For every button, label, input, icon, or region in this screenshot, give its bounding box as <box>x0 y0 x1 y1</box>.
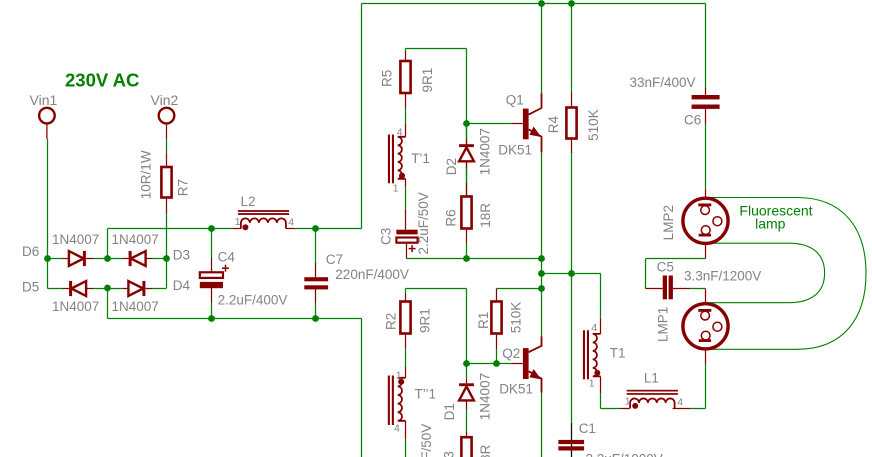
wire y273 cross wire <box>542 274 601 319</box>
capacitor C6 <box>692 88 720 124</box>
value 1N4007 of D2 <box>477 128 492 175</box>
value 220nF/400V <box>335 267 409 282</box>
label L2 <box>241 194 256 209</box>
svg-text:1: 1 <box>393 182 399 194</box>
wire Q2 emitter down <box>541 393 543 457</box>
pin 1 of T''1 <box>396 369 402 381</box>
svg-text:2.2uF/50V: 2.2uF/50V <box>416 192 431 254</box>
svg-text:T1: T1 <box>610 346 626 361</box>
label Q2 <box>502 346 520 361</box>
pin 1 of T1 <box>589 377 595 389</box>
svg-text:Q1: Q1 <box>506 92 524 107</box>
junction top rail at Q1 collector <box>538 0 545 7</box>
label C6 <box>684 113 701 128</box>
svg-text:C7: C7 <box>326 252 343 267</box>
value 1N4007 of D4 <box>112 299 159 314</box>
svg-text:2.2uF/50V: 2.2uF/50V <box>419 424 434 457</box>
svg-text:1: 1 <box>235 216 241 228</box>
svg-text:D1: D1 <box>442 403 457 420</box>
svg-text:D6: D6 <box>22 244 39 259</box>
junction Q1 emitter node <box>538 255 545 262</box>
svg-text:1: 1 <box>625 396 631 408</box>
value 33nF/400V <box>630 75 696 90</box>
svg-text:lamp: lamp <box>755 216 786 232</box>
wire C6 net upper <box>705 4 707 89</box>
value 18R of R6 <box>478 203 493 228</box>
wire bottom rail y318 <box>108 289 362 457</box>
label Vin1 <box>30 92 58 108</box>
label 230V AC <box>65 69 139 90</box>
svg-text:R3: R3 <box>442 451 457 457</box>
svg-text:4: 4 <box>288 216 294 228</box>
label D6 <box>22 244 39 259</box>
svg-text:T’1: T’1 <box>411 151 430 166</box>
value of C1 (cut) <box>586 452 663 457</box>
label L1 <box>644 371 659 386</box>
svg-text:R7: R7 <box>176 179 191 196</box>
lamp LMP2 <box>683 189 728 259</box>
label Fluorescent lamp <box>739 203 812 232</box>
terminal Vin2 <box>159 108 175 139</box>
junction x541 y273 <box>538 270 545 277</box>
svg-text:1N4007: 1N4007 <box>477 373 492 420</box>
value 1N4007 of D5 <box>52 299 99 314</box>
wire R2 cell top <box>406 289 467 364</box>
svg-text:1N4007: 1N4007 <box>112 232 159 247</box>
resistor R1 <box>491 289 501 364</box>
label R5 <box>379 70 394 87</box>
label D1 <box>442 403 457 420</box>
inductor L1 <box>620 390 690 409</box>
svg-text:C4: C4 <box>218 250 236 265</box>
pin 4 of L1 <box>677 397 683 409</box>
svg-text:1N4007: 1N4007 <box>112 299 159 314</box>
wire LMP2 bottom to C5 <box>646 259 706 289</box>
wire C5 to LMP1 top <box>690 288 706 290</box>
pin 4 of T''1 <box>394 423 400 435</box>
wire Q2 base <box>467 363 512 365</box>
label R3 <box>442 451 457 457</box>
svg-text:DK51: DK51 <box>498 142 532 157</box>
pin 1 of L1 <box>625 396 631 408</box>
svg-text:4: 4 <box>677 397 683 409</box>
svg-text:R2: R2 <box>384 313 399 330</box>
diode D4 <box>108 281 167 296</box>
svg-text:4: 4 <box>591 322 597 334</box>
label C7 <box>326 252 343 267</box>
svg-text:3.3nF/1200V: 3.3nF/1200V <box>684 269 761 284</box>
label R7 <box>176 179 191 196</box>
label R1 <box>476 312 491 329</box>
wire bridge plus riser <box>107 229 109 259</box>
label R4 <box>546 115 561 133</box>
transformer T''1 <box>388 367 406 457</box>
resistor R5 <box>400 49 410 125</box>
value 9R1 of R2 <box>418 308 433 333</box>
value 1N4007 of D1 <box>477 373 492 420</box>
svg-text:LMP1: LMP1 <box>655 307 670 342</box>
svg-text:510K: 510K <box>508 302 523 334</box>
value 9R1 of R5 <box>420 68 435 93</box>
resistor R4 <box>566 4 576 154</box>
value 2.2uF/400V <box>218 292 288 307</box>
svg-text:9R1: 9R1 <box>420 68 435 93</box>
inductor L2 <box>233 210 295 230</box>
wire Vin1 net vertical <box>47 139 49 289</box>
wire C1 black segment <box>571 423 573 457</box>
resistor R3 <box>461 437 471 457</box>
value 2.2uF/50V of C2 <box>419 424 434 457</box>
svg-text:Vin1: Vin1 <box>30 92 58 108</box>
label Vin2 <box>151 92 179 108</box>
junction Q2 base node <box>463 360 470 367</box>
pin 1 of T'1 <box>393 182 399 194</box>
wire R5 cell top <box>406 49 467 124</box>
label T''1 <box>415 387 437 402</box>
svg-text:C6: C6 <box>684 113 701 128</box>
capacitor C3 <box>396 230 417 259</box>
wire Q1 base <box>467 123 512 125</box>
junction C7 bottom <box>312 315 319 322</box>
svg-text:R5: R5 <box>379 70 394 87</box>
value 10R/1W <box>138 150 153 199</box>
junction top rail at R4 <box>568 0 575 7</box>
value DK51 of Q2 <box>499 382 533 397</box>
svg-text:L1: L1 <box>644 371 659 386</box>
resistor R6 <box>461 197 471 259</box>
transistor Q1 <box>511 4 541 153</box>
transformer T1 <box>583 318 601 393</box>
label D4 <box>173 278 191 293</box>
svg-text:R6: R6 <box>444 209 459 226</box>
transistor Q2 <box>511 336 541 392</box>
value 1N4007 of D6 <box>52 232 99 247</box>
wire T1 bottom to L1 <box>601 393 621 408</box>
label C4 <box>218 250 236 265</box>
label C5 <box>657 259 674 274</box>
label T'1 <box>411 151 430 166</box>
diode D2 <box>459 124 474 197</box>
svg-text:18R: 18R <box>478 203 493 228</box>
svg-text:220nF/400V: 220nF/400V <box>335 267 409 282</box>
wire L1 to LMP1 <box>690 364 706 409</box>
svg-text:1: 1 <box>589 377 595 389</box>
wire L2 output node y228 <box>108 228 362 230</box>
svg-text:D3: D3 <box>173 248 190 263</box>
svg-text:T’’1: T’’1 <box>415 387 437 402</box>
label D3 <box>173 248 190 263</box>
label C3 <box>379 228 394 245</box>
svg-text:510K: 510K <box>586 109 601 141</box>
wire R1 top <box>497 288 542 290</box>
junction bridge row1 right <box>163 255 170 262</box>
value 18R of R3 <box>478 444 493 457</box>
pin 4 of T1 <box>591 322 597 334</box>
junction R1 bottom <box>493 360 500 367</box>
svg-text:4: 4 <box>394 423 400 435</box>
lamp LMP1 <box>683 289 728 364</box>
junction x541 y288 <box>538 285 545 292</box>
svg-text:C1: C1 <box>579 421 596 436</box>
junction R6 bottom <box>463 255 470 262</box>
diode D5 <box>48 281 108 296</box>
capacitor C5 <box>646 276 690 300</box>
resistor R2 <box>400 289 410 368</box>
junction bridge row2 centre <box>104 285 111 292</box>
diode D1 <box>459 364 474 438</box>
transformer T'1 <box>388 124 406 230</box>
svg-text:Vin2: Vin2 <box>151 92 179 108</box>
svg-text:1: 1 <box>396 369 402 381</box>
label Q1 <box>506 92 524 107</box>
svg-text:1N4007: 1N4007 <box>52 232 99 247</box>
wire emitter bottom y258 <box>407 258 542 260</box>
pin 4 of L2 <box>288 216 294 228</box>
svg-text:4: 4 <box>397 126 403 138</box>
label T1 <box>610 346 626 361</box>
label R6 <box>444 209 459 226</box>
svg-text:D5: D5 <box>22 279 39 294</box>
junction Q1 base node <box>463 120 470 127</box>
label D5 <box>22 279 39 294</box>
wire Vin2/R7 net vertical <box>166 213 168 288</box>
pin 4 of T'1 <box>397 126 403 138</box>
diode D6 <box>48 251 108 266</box>
label LMP1 <box>655 307 670 342</box>
diode D3 <box>108 251 167 266</box>
value 2.2uF/50V of C3 <box>416 192 431 254</box>
svg-text:2.2uF/400V: 2.2uF/400V <box>218 292 288 307</box>
pin 1 of L2 <box>235 216 241 228</box>
fluorescent tube inner outline <box>706 243 825 303</box>
label D2 <box>444 158 459 175</box>
svg-text:DK51: DK51 <box>499 382 533 397</box>
svg-text:C3: C3 <box>379 228 394 245</box>
svg-text:R4: R4 <box>546 115 561 133</box>
svg-text:D4: D4 <box>173 278 191 293</box>
label C1 <box>579 421 596 436</box>
svg-text:10R/1W: 10R/1W <box>138 150 153 199</box>
svg-text:230V AC: 230V AC <box>65 69 139 90</box>
label R2 <box>384 313 399 330</box>
value 510K of R1 <box>508 302 523 334</box>
junction C7 top <box>312 225 319 232</box>
junction R4 bottom <box>568 270 575 277</box>
capacitor C4 <box>200 229 229 319</box>
svg-text:33nF/400V: 33nF/400V <box>630 75 696 90</box>
svg-text:1N4007: 1N4007 <box>52 299 99 314</box>
wire top rail net N$7 <box>362 3 706 5</box>
fluorescent tube outer outline <box>706 198 867 350</box>
capacitor C7 <box>304 229 328 319</box>
svg-text:LMP2: LMP2 <box>661 205 676 240</box>
capacitor C1 <box>558 440 584 451</box>
svg-text:1N4007: 1N4007 <box>477 128 492 175</box>
wire C6 to LMP2 <box>705 124 707 190</box>
wire D2 to R6 vertical <box>466 124 468 197</box>
resistor R7 <box>161 139 171 213</box>
junction C4 top <box>208 225 215 232</box>
junction C4 bottom <box>208 315 215 322</box>
wire x541 vertical Q1-Q2 <box>541 152 543 336</box>
svg-text:2.2uF/1000V: 2.2uF/1000V <box>586 452 663 457</box>
svg-text:Q2: Q2 <box>502 346 520 361</box>
label LMP2 <box>661 205 676 240</box>
junction bridge row1 centre <box>104 255 111 262</box>
svg-text:18R: 18R <box>478 444 493 457</box>
value 510K of R4 <box>586 109 601 141</box>
junction bridge row1 left <box>44 255 51 262</box>
terminal Vin1 <box>39 108 55 139</box>
svg-text:L2: L2 <box>241 194 256 209</box>
wire R4/C1 vertical <box>571 153 573 423</box>
value DK51 of Q1 <box>498 142 532 157</box>
svg-text:9R1: 9R1 <box>418 308 433 333</box>
value 3.3nF/1200V <box>684 269 761 284</box>
svg-text:D2: D2 <box>444 158 459 175</box>
svg-text:R1: R1 <box>476 312 491 329</box>
value 1N4007 of D3 <box>112 232 159 247</box>
wire left riser x362 from L2 node to top rail <box>361 4 363 229</box>
svg-text:C5: C5 <box>657 259 674 274</box>
